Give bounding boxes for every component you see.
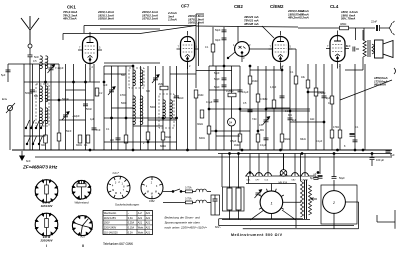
svg-text:A21: A21 xyxy=(146,227,151,230)
svg-text:30kΩ: 30kΩ xyxy=(165,136,171,139)
svg-text:4,0µF: 4,0µF xyxy=(270,86,277,89)
svg-text:30kΩ: 30kΩ xyxy=(300,138,306,141)
svg-text:300Ω: 300Ω xyxy=(76,144,82,147)
svg-text:30kΩ: 30kΩ xyxy=(197,123,203,126)
svg-text:50nF: 50nF xyxy=(178,97,184,100)
svg-text:48V/28 mA: 48V/28 mA xyxy=(243,22,259,26)
svg-text:CF7: CF7 xyxy=(181,4,190,9)
svg-text:Wdst: Wdst xyxy=(138,231,144,234)
svg-text:0,2A: 0,2A xyxy=(128,231,133,234)
svg-text:600Ω: 600Ω xyxy=(199,137,205,140)
svg-text:500: 500 xyxy=(121,74,126,77)
svg-text:300: 300 xyxy=(146,90,151,93)
svg-text:50pF: 50pF xyxy=(214,78,220,81)
svg-text:Bedeutung der Strom- und: Bedeutung der Strom- und xyxy=(165,215,201,219)
svg-text:0.5: 0.5 xyxy=(33,60,37,63)
svg-text:50nF: 50nF xyxy=(66,130,72,133)
svg-text:nach unten: 220V≈/60V~/110V≈: nach unten: 220V≈/60V~/110V≈ xyxy=(165,226,208,230)
svg-text:0.1µF: 0.1µF xyxy=(260,144,267,147)
svg-text:480Ω: 480Ω xyxy=(340,22,346,26)
svg-text:0.3MΩ: 0.3MΩ xyxy=(260,98,268,101)
svg-text:A21: A21 xyxy=(146,212,151,215)
svg-text:1µF: 1µF xyxy=(90,118,95,121)
svg-text:0,3A: 0,3A xyxy=(128,217,133,220)
svg-text:A21: A21 xyxy=(146,217,151,220)
svg-text:A21: A21 xyxy=(138,222,143,225)
svg-text:50pF: 50pF xyxy=(214,72,220,75)
svg-text:0.1µF: 0.1µF xyxy=(242,91,249,94)
svg-text:0,15A: 0,15A xyxy=(128,227,135,230)
svg-text:50µF: 50µF xyxy=(339,177,345,180)
svg-text:48V,73mA: 48V,73mA xyxy=(62,17,77,21)
svg-text:C/L7: C/L7 xyxy=(113,171,120,175)
svg-text:CL4: CL4 xyxy=(330,4,339,9)
svg-text:5nF: 5nF xyxy=(34,55,39,59)
svg-text:220V-240V: 220V-240V xyxy=(104,227,117,230)
svg-text:50nF: 50nF xyxy=(214,86,220,89)
svg-text:5µF: 5µF xyxy=(1,74,6,77)
svg-text:100 µF: 100 µF xyxy=(376,158,385,162)
svg-text:105V,0.9mA: 105V,0.9mA xyxy=(98,17,114,21)
svg-text:0.5µF: 0.5µF xyxy=(230,140,237,143)
svg-text:1MΩ: 1MΩ xyxy=(252,80,257,83)
svg-text:5000: 5000 xyxy=(121,102,127,105)
svg-text:Erde: Erde xyxy=(2,98,8,101)
svg-text:1.5mA: 1.5mA xyxy=(168,18,177,22)
svg-text:6nF: 6nF xyxy=(26,159,31,163)
svg-text:A2T: A2T xyxy=(79,235,87,239)
svg-text:Widerstand: Widerstand xyxy=(74,200,89,204)
svg-text:0.2MΩ: 0.2MΩ xyxy=(226,90,234,93)
svg-text:30pF: 30pF xyxy=(215,39,221,42)
svg-text:500pF: 500pF xyxy=(62,98,69,101)
svg-text:M: M xyxy=(112,189,114,192)
svg-text:0.5MΩ: 0.5MΩ xyxy=(318,92,326,95)
svg-text:CB2: CB2 xyxy=(234,4,243,9)
svg-text:~12pF: ~12pF xyxy=(72,114,80,118)
svg-text:7-12pF: 7-12pF xyxy=(55,66,64,70)
svg-text:500pF: 500pF xyxy=(25,91,33,95)
svg-text:1: 1 xyxy=(271,201,273,205)
svg-text:0,25A: 0,25A xyxy=(128,222,135,225)
svg-text:+: + xyxy=(354,134,356,138)
svg-text:1MΩ: 1MΩ xyxy=(234,144,239,147)
svg-text:A21: A21 xyxy=(146,222,151,225)
svg-text:2µF: 2µF xyxy=(292,119,297,122)
svg-text:C/EM2: C/EM2 xyxy=(270,4,284,9)
svg-text:1MΩ: 1MΩ xyxy=(198,94,203,97)
svg-text:60V~: 60V~ xyxy=(215,226,221,229)
svg-text:A21: A21 xyxy=(138,217,143,220)
svg-text:0.1µF: 0.1µF xyxy=(316,140,323,143)
svg-text:CB2: CB2 xyxy=(149,199,155,203)
svg-text:74Ω: 74Ω xyxy=(252,118,257,121)
svg-text:A21: A21 xyxy=(146,231,151,234)
svg-text:A-Z: A-Z xyxy=(138,212,142,215)
svg-text:M: M xyxy=(147,191,149,194)
svg-text:170Ω: 170Ω xyxy=(333,126,339,129)
svg-text:220/240V: 220/240V xyxy=(40,239,54,243)
svg-text:ZF=468/473 kHz: ZF=468/473 kHz xyxy=(22,165,58,170)
svg-text:Sockelschaltungen: Sockelschaltungen xyxy=(115,202,140,206)
svg-text:8µF: 8µF xyxy=(310,177,315,180)
svg-text:Spannungswerte wie oben: Spannungswerte wie oben xyxy=(165,220,201,224)
svg-text:5000: 5000 xyxy=(150,106,156,109)
svg-text:50nF: 50nF xyxy=(86,107,92,111)
svg-text:2MΩ: 2MΩ xyxy=(158,82,164,86)
svg-text:22nF: 22nF xyxy=(371,20,377,24)
svg-text:Wdst: Wdst xyxy=(138,227,144,230)
svg-text:MN 62A: MN 62A xyxy=(279,182,288,185)
svg-text:300: 300 xyxy=(41,144,46,147)
svg-text:0.1µF: 0.1µF xyxy=(206,101,213,104)
svg-text:7nF: 7nF xyxy=(96,128,101,132)
svg-text:600Ω: 600Ω xyxy=(160,145,166,148)
svg-text:1nF: 1nF xyxy=(103,83,108,87)
svg-text:150V: 150V xyxy=(104,222,110,225)
svg-text:110-140/220: 110-140/220 xyxy=(104,231,118,234)
svg-text:2: 2 xyxy=(332,201,335,205)
svg-text:II: II xyxy=(82,244,84,248)
svg-text:M: M xyxy=(155,191,157,194)
svg-text:I: I xyxy=(46,244,47,248)
svg-text:2nF: 2nF xyxy=(346,44,351,48)
svg-text:48V,2mA: 48V,2mA xyxy=(287,16,300,20)
svg-text:5.2mA: 5.2mA xyxy=(300,16,309,20)
svg-text:4700: 4700 xyxy=(120,94,126,97)
svg-text:µF: µF xyxy=(314,173,317,176)
svg-text:50pF: 50pF xyxy=(215,29,221,32)
svg-text:M: M xyxy=(151,192,153,195)
svg-text:0.75A: 0.75A xyxy=(185,187,192,190)
svg-text:1kΩ: 1kΩ xyxy=(310,118,315,121)
svg-text:2nF: 2nF xyxy=(110,139,115,142)
svg-text:M: M xyxy=(115,192,117,195)
svg-text:Wechselstr.: Wechselstr. xyxy=(104,212,117,215)
svg-text:MΩ: MΩ xyxy=(288,114,292,117)
svg-text:500: 500 xyxy=(34,95,39,98)
svg-text:0.75A: 0.75A xyxy=(185,198,192,201)
svg-text:MΩ: MΩ xyxy=(260,129,264,132)
svg-text:CK1: CK1 xyxy=(67,5,76,10)
svg-text:107V,2.1mA: 107V,2.1mA xyxy=(142,17,158,21)
svg-text:30kΩ: 30kΩ xyxy=(284,138,290,141)
svg-text:Telefunken 667 GWK: Telefunken 667 GWK xyxy=(103,242,134,246)
svg-text:110/140V: 110/140V xyxy=(41,204,54,208)
svg-text:50V, 78mA: 50V, 78mA xyxy=(341,17,355,21)
svg-text:110V-125V: 110V-125V xyxy=(104,217,117,220)
svg-text:Meßinstrument 500 Ω/V: Meßinstrument 500 Ω/V xyxy=(231,233,283,237)
